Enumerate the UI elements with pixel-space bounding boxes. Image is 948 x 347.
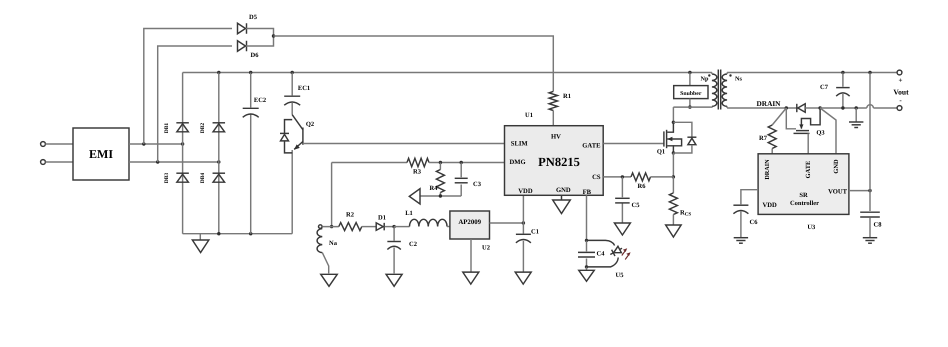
ground C5 [614,223,630,235]
capacitor C7 [820,73,850,109]
svg-text:GND: GND [833,159,840,174]
inductor L1 [394,210,450,227]
ground Na [321,274,338,286]
svg-text:DRAIN: DRAIN [757,99,782,108]
svg-text:GND: GND [556,187,571,194]
IC U3 SR controller [758,154,849,231]
wire R3 to DMG pin [429,161,505,164]
svg-text:DB1: DB1 [164,123,170,134]
wire R4 C3 bottom [420,194,461,197]
svg-text:C1: C1 [531,229,539,236]
wire top bus [183,71,712,74]
ground C6 [734,238,748,244]
svg-text:C7: C7 [820,84,829,91]
wire Q3 gate down [807,133,809,153]
wire EMI top output [129,142,184,145]
svg-text:L1: L1 [405,210,413,217]
capacitor C1 [516,229,539,272]
resistor Rcs [669,177,691,225]
svg-text:C8: C8 [874,222,883,229]
IC U1 PN8215 [505,112,604,196]
capacitor C6 [733,205,758,237]
regulator U2 AP2009 [450,211,490,252]
wire R1 to HV pin [552,111,554,126]
wire to D5 [144,29,232,145]
svg-text:SR: SR [799,192,808,199]
svg-text:DRAIN: DRAIN [764,159,771,180]
wire EMI bottom output [129,160,221,163]
winding Na [317,225,339,274]
svg-text:DMG: DMG [510,159,526,166]
svg-text:Ns: Ns [735,76,742,83]
wire U2 output [490,221,526,224]
svg-text:CS: CS [592,174,601,181]
wire bottom bus [183,232,293,235]
wire diode to node [805,106,822,109]
ground Rcs [666,225,682,237]
capacitor C8 [860,212,882,237]
wire D1 to C2 node [385,225,396,228]
svg-text:D1: D1 [378,215,386,222]
svg-text:D6: D6 [251,52,260,59]
transformer primary Np [673,73,716,108]
capacitor EC2 [243,73,266,234]
svg-text:C5: C5 [632,202,641,209]
wire Q1 source down [672,153,675,179]
wire DRAIN net [727,99,797,110]
capacitor C5 [615,177,640,223]
ground GND pin [553,195,571,213]
wire Q2 base to SLIM [303,143,505,145]
transistor Q3 [786,108,825,137]
svg-text:DB3: DB3 [164,173,170,184]
svg-text:U5: U5 [616,272,625,279]
resistor R4 [430,163,445,197]
svg-text:EMI: EMI [89,147,113,161]
ground C2 [386,274,402,286]
svg-text:EC2: EC2 [254,97,266,104]
diode DB4 [200,173,225,184]
svg-text:C3: C3 [473,181,482,188]
svg-text:Q3: Q3 [816,130,825,137]
diode Q2 clamp [280,120,292,153]
svg-text:HV: HV [551,133,561,140]
wire input to EMI [45,144,73,162]
svg-text:R2: R2 [346,212,354,219]
snubber block [674,73,708,109]
output terminal plus [897,70,902,84]
wire VDD column [522,195,524,233]
ground bridge [192,234,209,253]
wire HV feed [274,36,554,91]
svg-text:C4: C4 [597,251,606,258]
svg-text:EC1: EC1 [298,85,310,92]
svg-text:Snubber: Snubber [680,90,702,97]
wire DB1 DB3 column [182,73,184,234]
svg-text:R4: R4 [430,185,439,192]
wire R6 to Q1 source [651,176,674,178]
transformer core [718,70,720,110]
svg-text:GATE: GATE [805,161,812,179]
wire DMG drop to aux [330,163,333,229]
optocoupler U5 LED [587,240,625,279]
transformer secondary Ns [722,73,742,109]
svg-text:Vout: Vout [893,88,909,97]
svg-text:R7: R7 [759,135,768,142]
svg-text:FB: FB [583,189,592,196]
diode DB2 [200,123,225,134]
svg-text:DB4: DB4 [200,173,206,184]
diode D6 [238,41,260,59]
svg-text:DB2: DB2 [200,123,206,134]
wire CS line [603,175,631,178]
resistor R1 [549,91,571,110]
transistor Q1 [657,107,682,155]
svg-text:U3: U3 [807,224,816,231]
label Vout [893,88,909,97]
svg-text:U1: U1 [525,112,533,119]
svg-text:D5: D5 [249,14,258,21]
transistor Q2 [292,115,314,234]
svg-text:GATE: GATE [582,142,601,149]
svg-text:C2: C2 [409,241,417,248]
wire DB2 DB4 column [218,73,220,234]
wire DMG line [332,162,407,164]
wire output bottom rail [820,105,897,110]
wire output top rail [727,71,897,74]
ground C4 [579,267,595,281]
svg-text:SLIM: SLIM [511,141,529,148]
input terminal top [41,142,46,147]
wire to D6 [158,46,232,162]
wire U2 ground pin [470,239,472,272]
diode D1 [376,215,386,231]
wire GND slant [820,108,836,154]
svg-text:R1: R1 [563,93,571,100]
resistor R6 [631,173,651,190]
resistor R7 [759,108,786,154]
diode SR [797,104,805,112]
resistor R2 [339,212,362,231]
input terminal bottom [41,160,46,165]
ground C1 [515,272,531,284]
EMI filter block [73,128,129,180]
svg-text:VDD: VDD [763,202,778,209]
svg-text:C6: C6 [750,219,759,226]
wire FB pin down [585,195,588,242]
capacitor C4 [578,240,605,268]
svg-text:R6: R6 [638,183,647,190]
resistor R3 [407,158,429,175]
svg-text:R3: R3 [413,169,422,176]
diode DB3 [164,173,189,184]
ground output [849,108,863,128]
svg-text:VDD: VDD [518,188,533,195]
ground arrow left [409,189,420,204]
diode Q1 body [673,122,696,153]
capacitor C3 [455,163,482,197]
svg-text:+: + [899,77,903,85]
svg-text:Na: Na [329,240,338,247]
capacitor C2 [387,227,417,274]
svg-text:Controller: Controller [790,200,819,207]
output terminal minus [897,97,902,111]
ground C8 [863,238,877,244]
capacitor EC1 [284,73,310,115]
wire output column [869,73,871,212]
svg-text:VOUT: VOUT [828,189,848,196]
wire GATE to Q1 [603,143,664,145]
svg-text:U2: U2 [482,245,490,252]
svg-text:Np: Np [701,76,709,83]
wire VDD to C6 [741,190,758,205]
wire VOUT to C8 [849,189,872,192]
optocoupler light arrows [622,248,631,259]
svg-text:Q2: Q2 [306,121,314,128]
svg-text:AP2009: AP2009 [458,219,481,226]
wire R2 to D1 [362,226,376,228]
wire D5 D6 join [246,29,275,47]
diode DB1 [164,123,189,134]
ground U2 [463,272,479,284]
svg-text:PN8215: PN8215 [538,155,580,169]
diode D5 [238,14,258,34]
svg-text:Q1: Q1 [657,149,665,156]
